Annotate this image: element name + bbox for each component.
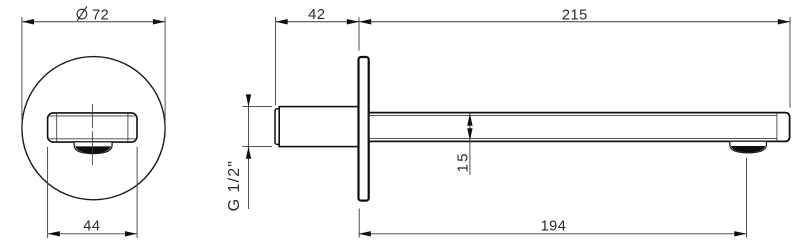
svg-text:72: 72 (92, 7, 109, 23)
svg-text:42: 42 (308, 7, 325, 23)
svg-text:44: 44 (83, 218, 100, 234)
svg-text:215: 215 (562, 7, 588, 23)
svg-text:15: 15 (455, 151, 471, 172)
svg-text:G 1/2": G 1/2" (226, 160, 243, 211)
svg-text:194: 194 (541, 218, 567, 234)
